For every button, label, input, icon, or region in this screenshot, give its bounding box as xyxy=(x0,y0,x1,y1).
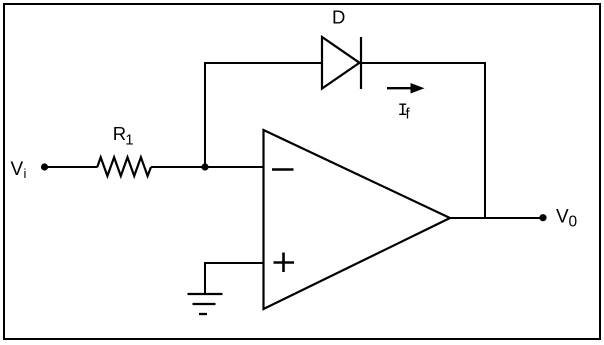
junction node dot xyxy=(201,163,208,170)
node Vi label xyxy=(11,159,27,181)
diode D xyxy=(322,37,361,89)
svg-text:R: R xyxy=(113,123,126,144)
node V0 label xyxy=(556,206,578,230)
input terminal dot xyxy=(41,163,48,170)
output terminal dot xyxy=(539,214,546,221)
op-amp minus sign xyxy=(272,168,294,171)
svg-text:V: V xyxy=(556,206,569,227)
ground xyxy=(188,294,223,314)
wire feedback top left segment xyxy=(204,62,322,64)
wire feedback top right segment xyxy=(361,62,486,64)
wire input to resistor xyxy=(47,166,98,168)
wire feedback vertical left xyxy=(204,63,206,167)
svg-text:0: 0 xyxy=(569,213,578,230)
svg-text:i: i xyxy=(24,166,27,181)
svg-text:V: V xyxy=(11,159,24,180)
svg-text:D: D xyxy=(332,6,345,27)
op-amp plus sign xyxy=(274,253,295,273)
wire noninverting input horizontal xyxy=(205,262,264,264)
wire output xyxy=(450,217,543,219)
svg-text:1: 1 xyxy=(125,132,133,149)
wire feedback vertical right xyxy=(484,62,486,218)
op-amp U1 xyxy=(264,130,451,309)
wire resistor to op-amp inverting input xyxy=(151,166,264,168)
wire noninverting input vertical to ground xyxy=(204,262,206,294)
label If xyxy=(398,101,411,123)
current arrow If xyxy=(387,83,425,94)
resistor R1 xyxy=(97,157,151,176)
label R1 xyxy=(113,123,134,149)
